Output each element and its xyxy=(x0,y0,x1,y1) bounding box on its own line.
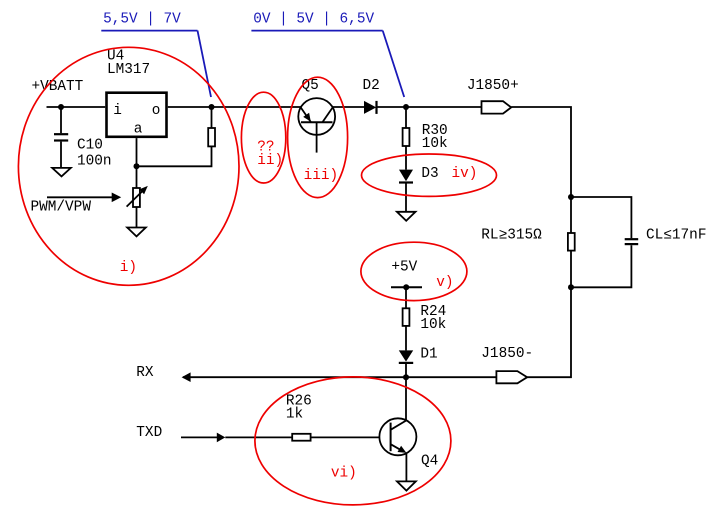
svg-text:Q5: Q5 xyxy=(302,78,319,94)
svg-text:Q4: Q4 xyxy=(421,454,438,470)
ground below C10 xyxy=(52,168,71,177)
svg-text:J1850-: J1850- xyxy=(481,346,533,362)
svg-text:TXD: TXD xyxy=(136,425,162,441)
node RX/D1/Q4 junction xyxy=(403,374,409,380)
svg-text:D2: D2 xyxy=(363,78,380,94)
wire R24 to D1 xyxy=(405,326,407,351)
svg-text:ii): ii) xyxy=(257,153,283,169)
svg-text:10k: 10k xyxy=(420,317,446,333)
Q5 emitter diagonal with arrow xyxy=(301,107,311,122)
wire RX rail xyxy=(183,376,496,378)
svg-text:v): v) xyxy=(436,275,453,291)
svg-text:0V | 5V | 6,5V: 0V | 5V | 6,5V xyxy=(253,11,374,27)
wire R26 to Q4 base xyxy=(311,436,380,438)
diode D2 xyxy=(364,101,377,114)
svg-text:C10: C10 xyxy=(77,138,103,154)
label U4 LM317 xyxy=(107,49,150,79)
svg-text:a: a xyxy=(134,121,143,137)
svg-text:100n: 100n xyxy=(77,153,112,169)
wire D2 to J1850+ xyxy=(377,106,482,108)
potentiometer body xyxy=(133,188,140,207)
connector J1850+ tag xyxy=(482,101,512,113)
svg-text:PWM/VPW: PWM/VPW xyxy=(31,199,92,215)
wire D1 to RX rail xyxy=(405,363,407,377)
svg-text:D3: D3 xyxy=(421,166,438,182)
svg-text:5,5V | 7V: 5,5V | 7V xyxy=(103,11,181,27)
transistor Q4 circle xyxy=(379,418,416,455)
Q4 emitter wire xyxy=(405,453,407,481)
Q4 emitter diagonal with arrow xyxy=(391,444,407,453)
svg-text:D1: D1 xyxy=(420,347,437,363)
resistor R30 xyxy=(403,128,410,146)
wire resistor to adjust rail xyxy=(137,146,212,166)
annotation ellipse i) around regulator section xyxy=(18,47,239,285)
annotation label ?? ii) xyxy=(257,139,283,169)
annotation ellipse vi) around Q4 xyxy=(255,377,451,505)
svg-text:RX: RX xyxy=(136,365,154,381)
node input/C10 junction xyxy=(58,104,64,110)
wire adjust pin down xyxy=(136,138,138,188)
wire TXD lead xyxy=(181,436,217,438)
ground below potentiometer xyxy=(127,228,146,237)
supply +5V bar xyxy=(391,286,422,288)
diode D1 xyxy=(399,350,413,363)
wire node to C10 xyxy=(60,107,62,133)
svg-text:10k: 10k xyxy=(422,136,448,152)
voltage annotation "0V | 5V | 6,5V" xyxy=(251,11,404,97)
diode D3 xyxy=(399,170,413,183)
wire J1850+ to right rail xyxy=(511,107,571,197)
svg-text:J1850+: J1850+ xyxy=(467,78,519,94)
transistor Q5 circle xyxy=(298,98,335,135)
Q5 collector diagonal xyxy=(323,107,333,122)
Q4 base bar xyxy=(390,423,392,452)
svg-text:i: i xyxy=(113,103,122,119)
annotation ellipse ii) xyxy=(241,92,285,183)
svg-text:iii): iii) xyxy=(304,168,339,184)
Q4 collector wire xyxy=(405,377,407,420)
node load bottom xyxy=(568,284,574,290)
arrow TXD (right) xyxy=(217,433,226,443)
wire pot to ground xyxy=(136,207,138,227)
annotation ellipse iv) around D3 xyxy=(362,154,497,196)
svg-text:i): i) xyxy=(120,260,137,276)
label R30 10k xyxy=(422,123,448,152)
annotation ellipse v) around +5V xyxy=(361,242,467,300)
wire node to feedback resistor xyxy=(211,107,213,128)
wire regulator output to Q5 xyxy=(168,106,301,108)
svg-text:+VBATT: +VBATT xyxy=(32,79,84,95)
wire +VBATT input to regulator xyxy=(47,106,106,108)
potentiometer arrow xyxy=(127,186,148,207)
wire R30 to D3 xyxy=(405,146,407,170)
wire load bottom to J1850- corner xyxy=(527,287,571,377)
ground below D3 xyxy=(397,212,416,221)
connector J1850- tag xyxy=(496,371,527,383)
label R26 1k xyxy=(286,393,312,422)
svg-text:LM317: LM317 xyxy=(107,62,150,78)
Q5 base bar xyxy=(301,121,333,123)
resistor R26 xyxy=(292,434,310,441)
arrow PWM/VPW into pot xyxy=(47,193,121,203)
annotation ellipse iii) around Q5 xyxy=(288,77,348,197)
svg-text:RL≥315Ω: RL≥315Ω xyxy=(481,228,542,244)
wire CL branch top xyxy=(571,197,631,238)
svg-text:o: o xyxy=(152,103,161,119)
wire Q5 to D2 xyxy=(333,106,364,108)
node regulator output xyxy=(209,104,215,110)
svg-text:+5V: +5V xyxy=(391,259,417,275)
regulator U4 LM317 box xyxy=(107,93,167,137)
node bus+ junction xyxy=(403,104,409,110)
svg-text:vi): vi) xyxy=(331,465,357,481)
resistor R24 xyxy=(403,308,410,326)
svg-text:CL≤17nF: CL≤17nF xyxy=(646,228,706,244)
label R24 10k xyxy=(420,304,446,333)
Q4 collector diagonal xyxy=(391,420,407,429)
resistor RL xyxy=(568,233,575,251)
arrow RX (left) xyxy=(182,372,191,382)
node +5V xyxy=(403,284,409,290)
node load top xyxy=(568,194,574,200)
resistor feedback (unlabeled) xyxy=(208,128,215,146)
wire RL to load bottom xyxy=(570,251,572,288)
wire CL branch bottom xyxy=(571,245,631,287)
wire node to R30 xyxy=(405,107,407,128)
capacitor CL xyxy=(625,239,639,244)
capacitor C10 xyxy=(54,134,68,167)
Q5 base lead xyxy=(316,122,318,152)
wire +5V to R24 xyxy=(405,287,407,308)
wire D3 to ground xyxy=(405,183,407,212)
svg-text:1k: 1k xyxy=(286,407,303,423)
wire load top to RL xyxy=(570,197,572,233)
voltage annotation "5,5V | 7V" xyxy=(101,11,211,97)
node adjust pin junction xyxy=(134,163,140,169)
label C10 100n xyxy=(77,138,112,170)
ground below Q4 xyxy=(397,481,416,490)
svg-text:iv): iv) xyxy=(452,166,478,182)
wire arrow to R26 xyxy=(225,436,292,438)
